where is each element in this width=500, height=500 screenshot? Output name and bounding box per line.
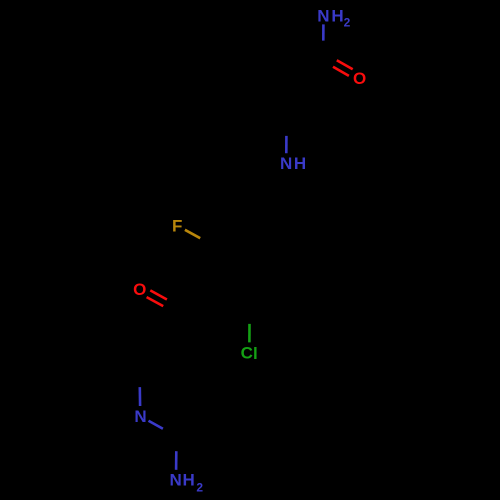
- svg-text:2: 2: [344, 16, 351, 30]
- svg-text:O: O: [353, 69, 366, 88]
- svg-text:H: H: [182, 471, 194, 490]
- svg-text:l: l: [253, 344, 258, 363]
- svg-text:N: N: [280, 154, 292, 173]
- bond C-N half, amide NH2 (top): [322, 24, 325, 40]
- bond C-Cl half, chlorine: [248, 324, 251, 343]
- svg-text:N: N: [317, 6, 329, 25]
- svg-text:H: H: [294, 154, 306, 173]
- bond C-N half, amine NH2 (bottom): [175, 451, 178, 470]
- svg-text:O: O: [133, 280, 146, 299]
- bond C-F half, fluorine: [185, 230, 200, 238]
- bond C-N half, pyridine ring (upper): [139, 387, 142, 406]
- bond C-N half, secondary amine NH: [285, 136, 288, 153]
- svg-text:N: N: [170, 471, 182, 490]
- svg-text:C: C: [241, 344, 253, 363]
- svg-text:N: N: [134, 407, 146, 426]
- svg-text:F: F: [172, 217, 182, 236]
- svg-text:2: 2: [196, 481, 203, 495]
- double bond C=O, ketone carbonyl: [150, 290, 167, 299]
- bond N-C half, pyridine ring (lower): [149, 421, 163, 429]
- svg-text:H: H: [331, 6, 343, 25]
- double bond C=O, amide carbonyl (top): [333, 67, 349, 76]
